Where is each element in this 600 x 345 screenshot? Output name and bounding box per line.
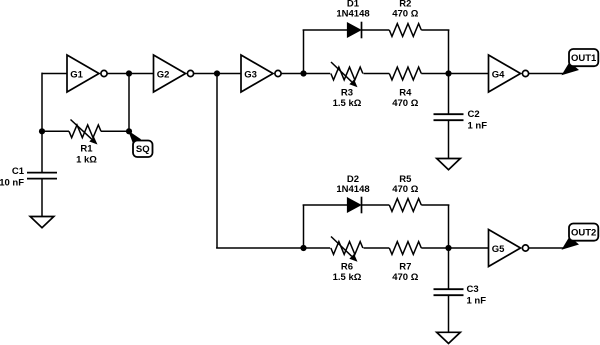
svg-text:R7: R7 [399,261,411,272]
resistor R3 1.5 k [331,67,363,109]
svg-text:470 Ω: 470 Ω [392,9,418,20]
node SQ net flag [128,131,152,157]
wire R1 row right segment [101,130,129,132]
op-amp inverter G1 [67,55,107,92]
svg-text:10 nF: 10 nF [0,178,24,189]
wire C2 column upper [448,74,450,115]
wire G1-out junction down to R1 row [128,74,130,132]
wire left feedback vertical [41,73,43,173]
diode D1 1N4148 [336,0,369,38]
svg-text:1.5 kΩ: 1.5 kΩ [333,272,362,283]
node junction left feedback / R1 [39,128,45,134]
svg-text:1.5 kΩ: 1.5 kΩ [333,98,362,109]
node junction G1 out [126,70,132,76]
svg-text:1N4148: 1N4148 [336,184,369,195]
resistor R2 470 [389,0,421,36]
svg-text:G1: G1 [70,70,83,81]
svg-text:C3: C3 [467,284,479,295]
wire G3 output to R3 [281,73,331,75]
node junction G2 out [214,70,220,76]
wire R4 to G4 input [421,73,488,75]
wire bottom branch vertical left [303,205,305,248]
wire G1 input [42,73,67,75]
svg-text:R1: R1 [80,144,93,155]
wire top branch vertical left [303,30,305,74]
op-amp inverter G4 [489,55,529,92]
node junction bottom left [300,245,306,251]
capacitor C3 1 nF [434,284,487,307]
wire C2 column lower [448,120,450,158]
svg-text:1 nF: 1 nF [468,121,488,132]
wire top branch vertical right [448,30,450,74]
ground for C2 [437,159,461,170]
svg-text:R3: R3 [341,87,353,98]
potentiometer arrow R1 [71,120,98,145]
node junction C3 top [445,245,451,251]
wire rail2 D2 to R5 [362,204,389,206]
node OUT2 net flag [562,224,599,250]
diode D2 1N4148 [336,174,369,214]
svg-text:C1: C1 [12,166,25,177]
wire G2-out junction down to bottom row [216,74,218,249]
node junction G3 out [300,70,306,76]
wire G2 output to G3 input [193,73,241,75]
node junction C2 top [445,70,451,76]
resistor R5 470 [389,174,421,212]
svg-text:470 Ω: 470 Ω [392,184,418,195]
wire C3 column lower [448,295,450,332]
svg-text:R6: R6 [341,261,353,272]
wire rail1 left segment to D1 [303,29,348,31]
resistor R6 1.5 k [331,242,363,283]
wire R1 row left segment [42,130,69,132]
svg-text:C2: C2 [468,109,480,120]
wire rail2 R5 to right corner [421,204,449,206]
resistor R1 1 k [69,125,101,166]
op-amp inverter G3 [241,55,281,92]
svg-text:G5: G5 [492,244,505,255]
svg-text:G3: G3 [244,70,257,81]
wire rail1 R2 to right corner [421,29,449,31]
svg-text:1N4148: 1N4148 [336,9,369,20]
wire G5 output to OUT2 [529,247,565,249]
svg-text:G4: G4 [492,70,505,81]
wire C1 to ground [41,179,43,217]
wire G1 output to G2 input [107,73,154,75]
capacitor C2 1 nF [434,109,488,132]
op-amp inverter G2 [154,55,194,92]
resistor R4 470 [389,67,421,109]
wire R7 to G5 input [421,247,488,249]
wire rail1 D1 to R2 [362,29,389,31]
svg-text:1 kΩ: 1 kΩ [76,155,97,166]
op-amp inverter G5 [489,230,529,267]
ground for C1 [30,217,54,228]
svg-text:G2: G2 [157,70,170,81]
wire R6 to R7 [364,247,390,249]
svg-text:470 Ω: 470 Ω [392,272,418,283]
wire rail2 left segment to D2 [303,204,348,206]
node OUT1 net flag [562,49,599,75]
svg-text:OUT1: OUT1 [571,53,597,64]
potentiometer arrow R6 [331,237,358,262]
ground for C3 [437,332,461,343]
svg-text:OUT2: OUT2 [571,228,596,239]
resistor R7 470 [389,242,421,283]
wire C3 column upper [448,248,450,289]
potentiometer arrow R3 [331,62,358,87]
wire bottom branch vertical right [448,205,450,248]
svg-text:SQ: SQ [136,144,150,155]
wire bottom row left segment [216,247,330,249]
node junction R1 / SQ [126,128,132,134]
capacitor C1 10 nF [0,166,57,189]
wire R3 to R4 [364,73,390,75]
svg-text:R4: R4 [399,87,412,98]
wire G4 output to OUT1 [528,73,564,75]
svg-text:1 nF: 1 nF [467,296,487,307]
svg-text:470 Ω: 470 Ω [392,98,418,109]
